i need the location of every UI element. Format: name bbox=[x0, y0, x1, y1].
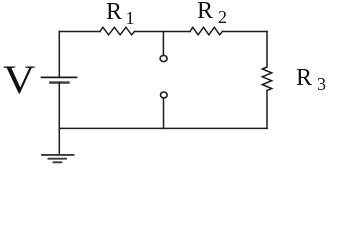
label R1 bbox=[106, 0, 135, 29]
wire left vertical (top corner down to battery) bbox=[58, 32, 60, 78]
resistor R3 bbox=[262, 67, 271, 91]
wire right vertical (R3 down to bottom corner) bbox=[266, 91, 268, 129]
terminal bottom open circle bbox=[161, 92, 168, 98]
wire stub node A (top wire down to terminal) bbox=[162, 32, 164, 56]
resistor R2 bbox=[190, 27, 222, 35]
label R2 bbox=[197, 0, 227, 28]
wire left vertical (battery down to ground) bbox=[58, 83, 60, 154]
battery V negative plate bbox=[50, 81, 68, 83]
terminal top open circle bbox=[160, 55, 167, 61]
label R3 bbox=[296, 65, 326, 95]
wire stub node B (terminal down to bottom wire) bbox=[163, 98, 165, 128]
battery V positive plate bbox=[42, 76, 77, 78]
wire top-right horizontal (R2 to right corner) bbox=[222, 31, 267, 33]
wire top-middle (R1 to node A junction to R2) bbox=[135, 31, 191, 33]
ground bbox=[42, 155, 74, 162]
label V bbox=[3, 56, 35, 103]
resistor R1 bbox=[100, 27, 135, 35]
wire right vertical (top corner down to R3) bbox=[266, 32, 268, 68]
wire bottom horizontal bbox=[59, 127, 267, 129]
wire top-left horizontal (source to R1) bbox=[59, 31, 100, 33]
